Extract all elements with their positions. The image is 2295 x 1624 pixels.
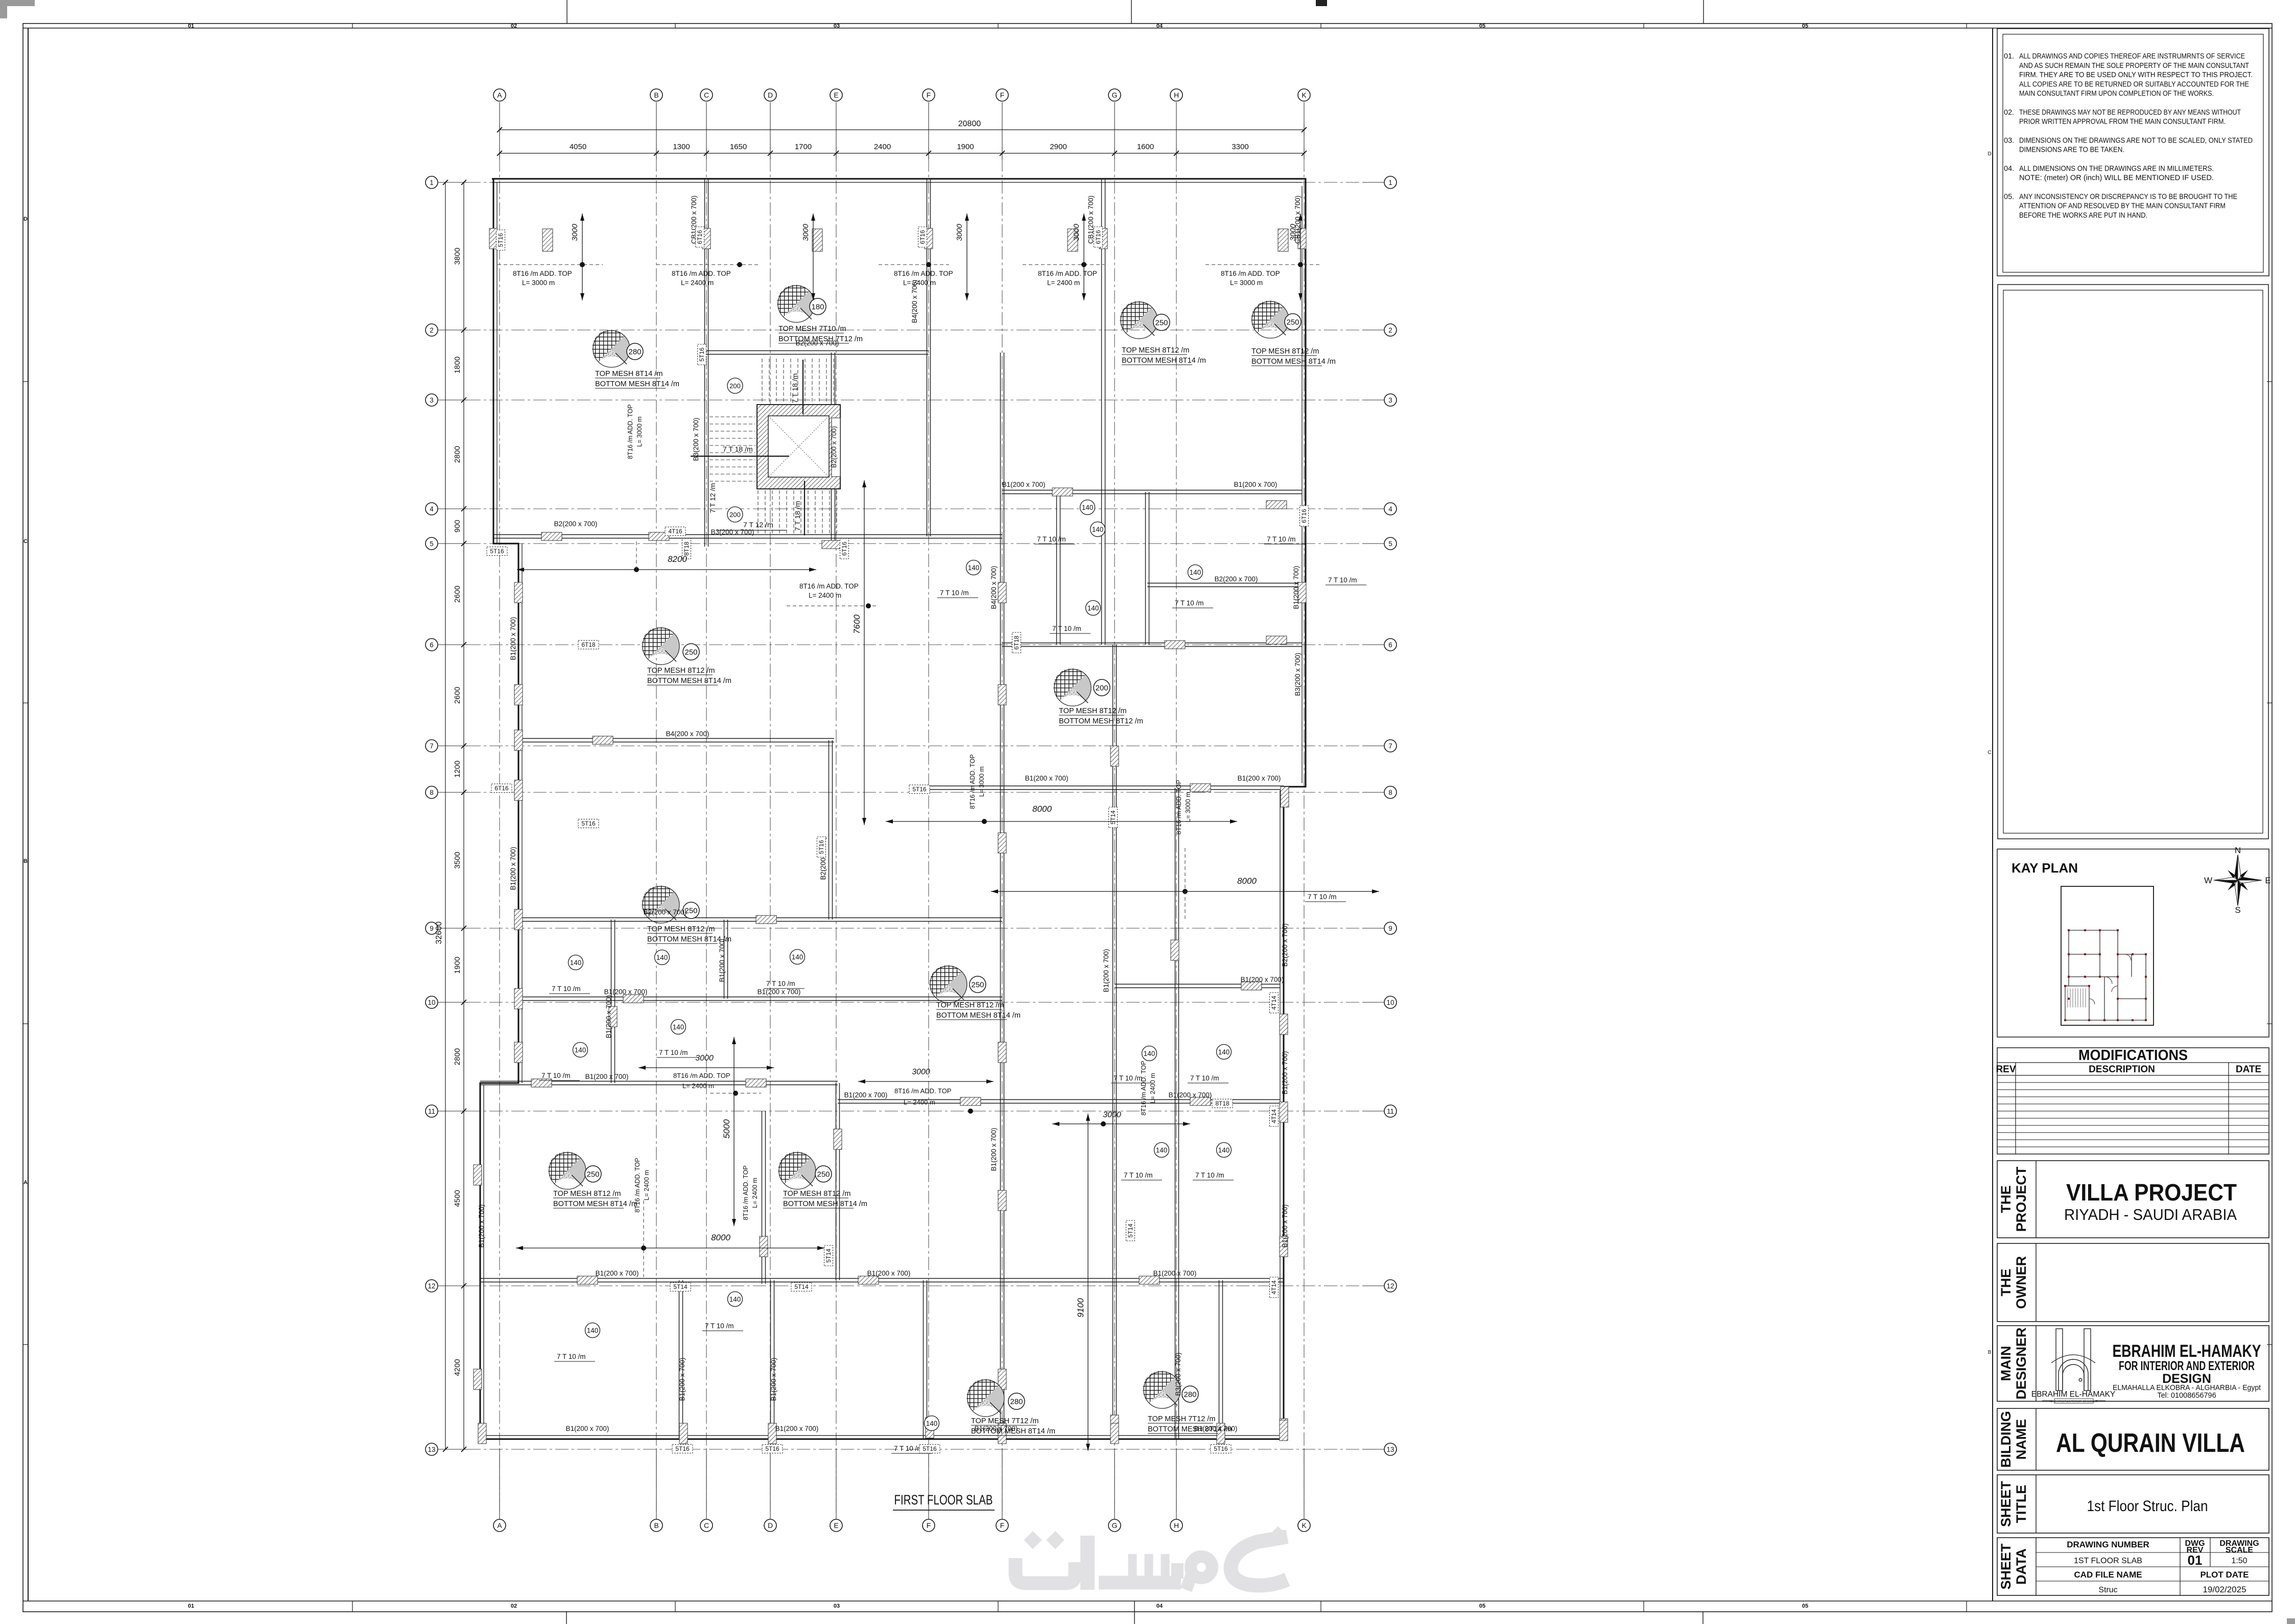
beam vertical x=1383	[704, 352, 705, 547]
mesh 280 at 2275,2721	[1143, 1371, 1180, 1408]
label box 6T16	[491, 784, 512, 793]
label box 6T18	[578, 641, 599, 649]
svg-text:L= 2400 m: L= 2400 m	[1047, 279, 1080, 287]
svg-text:3000: 3000	[801, 224, 810, 241]
column at 2350,1542	[1190, 784, 1211, 792]
label box 6T18	[1012, 632, 1021, 653]
svg-text:200: 200	[729, 382, 741, 390]
svg-text:3000: 3000	[1072, 224, 1081, 241]
grid bubble 3 left	[425, 394, 438, 406]
svg-text:6: 6	[430, 641, 434, 649]
svg-text:RIYADH - SAUDI ARABIA: RIYADH - SAUDI ARABIA	[2064, 1206, 2237, 1223]
svg-text:1st Floor Struc. Plan: 1st Floor Struc. Plan	[2087, 1498, 2208, 1515]
column at 1015,1160	[514, 582, 523, 603]
beam horizontal y=2506	[480, 1278, 1284, 1279]
svg-text:01.: 01.	[2004, 53, 2014, 61]
label box 5T16	[496, 230, 505, 250]
column at 2499,988	[1266, 501, 1287, 509]
svg-text:5T16: 5T16	[818, 840, 825, 854]
circle 140 at 2274,2251	[1154, 1143, 1169, 1158]
svg-text:E: E	[834, 1521, 838, 1529]
svg-text:7 T 10 /m: 7 T 10 /m	[541, 1072, 571, 1079]
svg-text:B1(200 x 700): B1(200 x 700)	[1169, 1091, 1212, 1099]
label box 5T14	[670, 1283, 691, 1291]
svg-text:MAIN CONSULTANT FIRM UPON COMP: MAIN CONSULTANT FIRM UPON COMPLETION OF …	[2019, 90, 2214, 98]
svg-text:B2(200 x 700): B2(200 x 700)	[554, 520, 598, 528]
grid bubble 12 left	[425, 1280, 438, 1292]
grid bubble B bottom	[650, 1519, 663, 1532]
svg-text:TOP MESH 8T12 /m: TOP MESH 8T12 /m	[936, 1001, 1004, 1009]
beam horizontal y=1930	[1115, 984, 1280, 985]
svg-text:8200: 8200	[668, 554, 687, 564]
label box 8T18	[1212, 1099, 1233, 1108]
svg-text:D: D	[1988, 151, 1991, 157]
svg-text:140: 140	[926, 1420, 938, 1427]
svg-text:DATA: DATA	[2014, 1548, 2029, 1585]
column at 2350,2156	[1190, 1097, 1211, 1105]
svg-text:BOTTOM MESH 8T14 /m: BOTTOM MESH 8T14 /m	[1122, 357, 1206, 365]
circle 140 at 1160,2604	[585, 1323, 600, 1338]
svg-text:B1(200 x 700): B1(200 x 700)	[478, 1205, 485, 1248]
svg-text:MAIN: MAIN	[1998, 1346, 2014, 1381]
stair 200 circles	[727, 378, 743, 393]
svg-text:02: 02	[511, 23, 517, 29]
bottom zone band line	[23, 1601, 2272, 1602]
span 9100	[1087, 1114, 1089, 1451]
svg-text:C: C	[1988, 750, 1991, 756]
svg-text:B2(200 x 700): B2(200 x 700)	[796, 339, 839, 347]
svg-text:ATTENTION OF AND RESOLVED BY T: ATTENTION OF AND RESOLVED BY THE MAIN CO…	[2019, 202, 2226, 210]
svg-text:PROJECT: PROJECT	[2014, 1166, 2029, 1232]
svg-text:8T16 /m ADD. TOP: 8T16 /m ADD. TOP	[1038, 270, 1097, 277]
svg-text:5T14: 5T14	[825, 1249, 832, 1263]
svg-text:B1(200 x 700): B1(200 x 700)	[1281, 1205, 1289, 1248]
svg-text:5: 5	[1388, 540, 1392, 548]
grid bubble 7 right	[1384, 740, 1397, 752]
column at 2450,1930	[1241, 982, 1262, 990]
span 8000 right	[991, 891, 1379, 892]
label box 6T16	[1094, 227, 1103, 247]
column at 1962,1160	[998, 582, 1006, 603]
svg-text:19/02/2025: 19/02/2025	[2203, 1585, 2246, 1594]
svg-text:280: 280	[1010, 1398, 1023, 1406]
column at 1962,1360	[998, 685, 1006, 705]
svg-text:B1(200 x 700): B1(200 x 700)	[1292, 566, 1300, 609]
svg-text:PLOT DATE: PLOT DATE	[2200, 1570, 2249, 1580]
beam horizontal y=1542	[929, 786, 1284, 787]
svg-text:7: 7	[1388, 742, 1392, 750]
beam vertical x=2182	[1113, 645, 1114, 1439]
column at 1900,2156	[960, 1097, 981, 1105]
svg-text:BOTTOM MESH 8T14 /m: BOTTOM MESH 8T14 /m	[1251, 358, 1336, 366]
circle 140 at 1561,1873	[790, 950, 805, 964]
grid bubble G top	[1108, 89, 1121, 101]
svg-text:04: 04	[1156, 1603, 1163, 1609]
column at 1512,2806	[768, 1423, 776, 1444]
svg-text:8T16 /m ADD. TOP: 8T16 /m ADD. TOP	[894, 1087, 952, 1095]
svg-text:4: 4	[430, 505, 434, 513]
svg-text:250: 250	[817, 1170, 830, 1179]
svg-text:2800: 2800	[453, 446, 462, 463]
svg-text:B: B	[23, 858, 28, 864]
svg-text:140: 140	[1082, 504, 1094, 511]
svg-text:AND AS SUCH REMAIN THE SOLE PR: AND AS SUCH REMAIN THE SOLE PROPERTY OF …	[2019, 62, 2249, 70]
svg-text:B1(200 x 700): B1(200 x 700)	[509, 847, 517, 890]
label box 5T16	[1211, 1445, 1231, 1453]
grid bubble C top	[700, 89, 713, 101]
mesh 180 at 1559,595	[777, 285, 815, 322]
mesh 250 at 1111,2292	[548, 1151, 586, 1189]
svg-text:2: 2	[430, 326, 434, 334]
svg-text:6T18: 6T18	[1013, 636, 1020, 650]
svg-text:8T16 /m ADD. TOP: 8T16 /m ADD. TOP	[799, 582, 859, 590]
svg-text:5T16: 5T16	[912, 786, 927, 793]
svg-text:1800: 1800	[453, 357, 462, 373]
svg-text:TOP MESH 8T12 /m: TOP MESH 8T12 /m	[1059, 707, 1126, 715]
svg-text:C: C	[23, 538, 28, 545]
svg-text:ANY INCONSISTENCY OR DISCREPAN: ANY INCONSISTENCY OR DISCREPANCY IS TO B…	[2019, 193, 2237, 201]
svg-text:8: 8	[430, 789, 434, 796]
svg-text:K: K	[1302, 91, 1307, 99]
svg-text:TOP MESH 8T12 /m: TOP MESH 8T12 /m	[647, 925, 715, 933]
label box 5T14	[1109, 807, 1118, 828]
svg-text:THE: THE	[1998, 1269, 2014, 1297]
svg-text:AL QURAIN VILLA: AL QURAIN VILLA	[2056, 1428, 2245, 1458]
svg-text:OWNER: OWNER	[2014, 1256, 2029, 1309]
grid bubble D top	[764, 89, 776, 101]
svg-text:180: 180	[811, 303, 824, 312]
svg-text:5: 5	[430, 540, 434, 548]
svg-text:280: 280	[1184, 1391, 1196, 1399]
svg-text:5T16: 5T16	[581, 820, 596, 827]
svg-text:B1(200 x 700): B1(200 x 700)	[585, 1073, 629, 1080]
svg-text:N: N	[2235, 845, 2241, 855]
grid bubble 6 left	[425, 639, 438, 651]
mesh 200 at 2100,1346	[1053, 668, 1091, 706]
svg-text:TOP MESH 7T12 /m: TOP MESH 7T12 /m	[971, 1417, 1038, 1425]
svg-text:C: C	[704, 1521, 709, 1529]
column at 1200,1990	[609, 1006, 617, 1027]
svg-text:6T16: 6T16	[1095, 230, 1102, 244]
label box 6T16	[840, 538, 849, 559]
svg-text:1900: 1900	[957, 143, 974, 151]
BILDING NAME block	[1997, 1408, 2269, 1470]
svg-text:W: W	[2204, 876, 2212, 885]
circle 140 at 1296,1874	[655, 950, 670, 965]
svg-text:4200: 4200	[453, 1359, 462, 1376]
beam horizontal y=1262	[1002, 643, 1302, 644]
column at 2513,2005	[1280, 1014, 1288, 1034]
svg-text:E: E	[2265, 876, 2270, 885]
svg-text:E: E	[834, 91, 838, 99]
svg-text:140: 140	[729, 1296, 741, 1303]
grid bubble H top	[1170, 89, 1182, 101]
svg-text:7 T 10 /m: 7 T 10 /m	[659, 1049, 688, 1056]
svg-text:B1(200 x 700): B1(200 x 700)	[604, 988, 648, 996]
column at 2390,2806	[1217, 1423, 1225, 1444]
svg-text:B: B	[654, 1521, 658, 1529]
svg-text:3000: 3000	[1289, 224, 1297, 241]
svg-text:8T18: 8T18	[683, 542, 690, 556]
svg-text:B2(200 x 700): B2(200 x 700)	[1281, 924, 1289, 967]
beam vertical x=2304	[1175, 788, 1176, 986]
svg-text:05.: 05.	[2004, 193, 2014, 201]
svg-text:8T16 /m ADD. TOP: 8T16 /m ADD. TOP	[1221, 270, 1280, 277]
svg-text:FIRST FLOOR SLAB: FIRST FLOOR SLAB	[894, 1492, 993, 1508]
svg-text:7 T 10 /m: 7 T 10 /m	[552, 985, 581, 993]
svg-text:140: 140	[656, 954, 668, 961]
label box 5T16	[817, 837, 826, 857]
svg-text:140: 140	[1190, 569, 1201, 576]
svg-text:L= 3000 m: L= 3000 m	[978, 766, 985, 796]
svg-text:B3(200 x 700): B3(200 x 700)	[711, 528, 754, 536]
svg-text:B1(200 x 700): B1(200 x 700)	[596, 1269, 639, 1277]
column at 1640,2230	[834, 1129, 842, 1149]
circle 140 at 1328,2010	[671, 1020, 686, 1034]
beam vertical x=2304	[1175, 986, 1176, 1439]
svg-text:B2(200 x 700): B2(200 x 700)	[1215, 575, 1258, 583]
grid bubble E bottom	[830, 1519, 842, 1532]
kay plan mini map	[2061, 886, 2154, 1025]
grid bubble 11 left	[425, 1105, 438, 1117]
svg-text:7 T 10 /m: 7 T 10 /m	[766, 980, 795, 987]
column at 2182,2806	[1110, 1423, 1119, 1444]
svg-text:5T14: 5T14	[673, 1283, 688, 1290]
svg-text:140: 140	[1092, 526, 1104, 533]
column at 2549,467	[1298, 228, 1306, 249]
svg-text:B1(200 x 700): B1(200 x 700)	[770, 1358, 777, 1401]
span 8200	[517, 569, 816, 570]
beam vertical x=1811	[923, 1280, 924, 1439]
grid dashed lines horizontal	[467, 182, 1379, 183]
svg-text:12: 12	[1386, 1282, 1394, 1290]
beam horizontal y=963	[1002, 490, 1302, 491]
svg-text:4050: 4050	[570, 143, 586, 151]
svg-text:FOR INTERIOR AND EXTERIOR: FOR INTERIOR AND EXTERIOR	[2119, 1359, 2255, 1373]
svg-text:L= 2400 m: L= 2400 m	[904, 1098, 935, 1106]
column at 1383,467	[702, 228, 711, 249]
beam vertical x=1640	[836, 1083, 837, 1280]
svg-text:SHEET: SHEET	[1998, 1480, 2014, 1527]
svg-text:4T14: 4T14	[1270, 1109, 1277, 1123]
svg-text:L= 3000 m: L= 3000 m	[636, 416, 643, 446]
column at 1818,467	[925, 228, 933, 249]
circle 140 at 2396,2059	[1217, 1045, 1232, 1060]
grid bubble 6 right	[1384, 639, 1397, 651]
column at 1629,1066	[822, 540, 842, 549]
svg-text:04.: 04.	[2004, 164, 2014, 173]
grid bubble 8 right	[1384, 786, 1397, 798]
svg-text:5T16: 5T16	[490, 548, 504, 555]
svg-text:5T16: 5T16	[922, 1445, 937, 1452]
shear wall marks	[542, 229, 553, 251]
beam vertical x=1512	[770, 1280, 771, 1439]
kay plan red column dots	[2064, 929, 2147, 1021]
svg-text:280: 280	[628, 348, 641, 357]
label box 5T14	[824, 1245, 833, 1266]
svg-text:140: 140	[587, 1327, 599, 1334]
svg-text:7 T 10 /m: 7 T 10 /m	[1308, 893, 1337, 901]
grid bubble H bottom	[1170, 1519, 1182, 1532]
grid bubble G bottom	[1108, 1519, 1121, 1532]
svg-text:6T16: 6T16	[1300, 509, 1308, 523]
svg-text:D: D	[768, 1521, 773, 1529]
svg-text:BEFORE THE WORKS ARE PUT IN HA: BEFORE THE WORKS ARE PUT IN HAND.	[2019, 211, 2147, 220]
column at 2160,467	[1099, 228, 1107, 249]
svg-text:TOP MESH 8T12 /m: TOP MESH 8T12 /m	[647, 667, 715, 675]
svg-text:1300: 1300	[673, 143, 690, 151]
svg-text:8T16 /m ADD. TOP: 8T16 /m ADD. TOP	[1140, 1061, 1147, 1115]
svg-text:9: 9	[1388, 925, 1392, 932]
grid bubble 3 right	[1384, 394, 1397, 406]
svg-text:NOTE: (meter) OR (inch) WILL B: NOTE: (meter) OR (inch) WILL BE MENTIONE…	[2019, 174, 2214, 182]
svg-text:VILLA PROJECT: VILLA PROJECT	[2066, 1179, 2237, 1206]
svg-text:8T16 /m ADD. TOP: 8T16 /m ADD. TOP	[1175, 780, 1182, 834]
svg-text:8000: 8000	[711, 1233, 730, 1242]
svg-text:05: 05	[1802, 23, 1808, 29]
svg-text:TITLE: TITLE	[2014, 1485, 2029, 1523]
svg-text:4T16: 4T16	[668, 528, 682, 535]
grid bubble 2 right	[1384, 324, 1397, 336]
SHEET TITLE block	[1997, 1475, 2269, 1533]
svg-text:13: 13	[1386, 1446, 1394, 1453]
beam horizontal y=2120	[480, 1081, 838, 1082]
svg-text:250: 250	[586, 1170, 599, 1179]
svg-text:DIMENSIONS ON THE DRAWINGS ARE: DIMENSIONS ON THE DRAWINGS ARE NOT TO BE…	[2019, 136, 2253, 145]
stair side flight	[709, 417, 755, 481]
svg-text:D: D	[768, 91, 773, 99]
svg-text:B1(200 x 700): B1(200 x 700)	[1025, 774, 1069, 782]
svg-text:5T14: 5T14	[1127, 1223, 1134, 1238]
grid bubble 4 left	[425, 503, 438, 515]
svg-text:4T14: 4T14	[1270, 1280, 1277, 1295]
mesh 250 at 1294,1771	[642, 885, 679, 923]
column at 935,2700	[474, 1369, 482, 1390]
svg-text:2600: 2600	[453, 687, 462, 703]
beam horizontal y=690	[706, 350, 929, 351]
mesh 250 at 1857,1927	[929, 965, 967, 1003]
svg-text:7 T 10 /m: 7 T 10 /m	[940, 589, 969, 597]
svg-text:20800: 20800	[958, 120, 981, 128]
column at 2513,2800	[1280, 1420, 1288, 1441]
svg-text:8: 8	[1388, 789, 1392, 796]
svg-text:900: 900	[453, 520, 462, 532]
grid bubble F bottom	[922, 1519, 935, 1532]
label box 4T14	[1270, 993, 1279, 1013]
svg-text:L= 2400 m: L= 2400 m	[1149, 1073, 1156, 1103]
label box 5T16	[919, 1445, 940, 1453]
svg-text:DATE: DATE	[2236, 1064, 2261, 1075]
beam vertical x=1495	[762, 1111, 763, 1284]
left segment dimensions	[463, 182, 464, 1449]
svg-text:250: 250	[1286, 318, 1299, 327]
grid bubble 7 left	[425, 740, 438, 752]
svg-text:8T16 /m ADD. TOP: 8T16 /m ADD. TOP	[672, 270, 731, 277]
circle 140 at 1824,2786	[925, 1416, 939, 1431]
svg-text:7 T 18 /m: 7 T 18 /m	[793, 501, 801, 531]
svg-text:8T16 /m ADD. TOP: 8T16 /m ADD. TOP	[673, 1072, 730, 1079]
grid bubble C bottom	[700, 1519, 713, 1532]
label box 4T14	[1270, 1106, 1279, 1126]
beam horizontal y=1800	[516, 917, 1002, 919]
elevator shaft	[757, 405, 840, 489]
THE OWNER block	[1997, 1243, 2269, 1322]
column at 1240,1955	[623, 995, 644, 1003]
svg-text:NAME: NAME	[2014, 1419, 2029, 1460]
svg-text:A: A	[497, 91, 502, 99]
svg-text:1900: 1900	[453, 957, 462, 974]
svg-text:250: 250	[684, 648, 697, 657]
grid bubble B top	[650, 89, 663, 101]
svg-text:BOTTOM MESH 8T14 /m: BOTTOM MESH 8T14 /m	[595, 380, 679, 388]
svg-text:A: A	[497, 1521, 502, 1529]
span 8000 lower left	[516, 1248, 824, 1249]
circle 140 at 1136,2055	[573, 1043, 588, 1057]
svg-text:7 T 12 /m: 7 T 12 /m	[743, 521, 773, 529]
svg-text:F: F	[1000, 91, 1005, 99]
svg-text:6T16: 6T16	[841, 542, 848, 556]
svg-text:140: 140	[792, 953, 803, 961]
beam vertical x=1200	[611, 920, 612, 1083]
grid bubble 9 left	[425, 922, 438, 934]
svg-text:B1(200 x 700): B1(200 x 700)	[758, 988, 801, 996]
svg-text:200: 200	[729, 511, 741, 519]
svg-text:7 T 10 /m: 7 T 10 /m	[1175, 599, 1204, 607]
svg-text:05: 05	[1802, 1603, 1808, 1609]
column at 966,467	[489, 228, 498, 249]
circle 140 at 2340,1120	[1188, 565, 1203, 580]
svg-text:7 T 10 /m: 7 T 10 /m	[1052, 625, 1081, 632]
svg-text:L= 2400 m: L= 2400 m	[681, 279, 714, 287]
svg-text:01: 01	[2188, 1552, 2203, 1568]
beam horizontal y=1145	[1147, 583, 1302, 584]
svg-text:140: 140	[575, 1046, 586, 1054]
svg-text:3000: 3000	[955, 224, 964, 241]
grid bubble F top	[922, 89, 935, 101]
svg-text:ALL DRAWINGS AND COPIES THEREO: ALL DRAWINGS AND COPIES THEREOF ARE INST…	[2019, 53, 2245, 61]
svg-text:8T16 /m ADD. TOP: 8T16 /m ADD. TOP	[742, 1165, 749, 1220]
svg-text:05: 05	[1479, 1603, 1485, 1609]
svg-text:3500: 3500	[453, 852, 462, 868]
svg-text:10: 10	[428, 999, 435, 1006]
svg-text:2: 2	[1388, 326, 1392, 334]
svg-text:1ST FLOOR SLAB: 1ST FLOOR SLAB	[2074, 1557, 2142, 1565]
svg-text:200: 200	[1095, 684, 1108, 693]
svg-text:3000: 3000	[695, 1054, 714, 1063]
svg-text:11: 11	[1387, 1108, 1394, 1115]
svg-text:H: H	[1174, 91, 1179, 99]
svg-text:7 T 10 /m: 7 T 10 /m	[1124, 1171, 1153, 1179]
label box 5T16	[762, 1445, 783, 1453]
svg-text:L= 2400 m: L= 2400 m	[751, 1178, 759, 1208]
svg-text:4T14: 4T14	[1270, 996, 1277, 1010]
svg-text:B1(200 x 700): B1(200 x 700)	[775, 1425, 819, 1432]
svg-text:L= 3000 m: L= 3000 m	[1230, 279, 1263, 287]
svg-text:ALL DIMENSIONS ON THE DRAWINGS: ALL DIMENSIONS ON THE DRAWINGS ARE IN MI…	[2019, 164, 2214, 173]
svg-text:5T14: 5T14	[794, 1283, 809, 1290]
svg-text:5T16: 5T16	[765, 1445, 779, 1452]
beam horizontal y=1449	[514, 738, 834, 739]
beam vertical x=1631	[831, 352, 832, 547]
label box 6T16	[918, 227, 927, 247]
svg-text:3300: 3300	[1232, 143, 1248, 151]
svg-text:3000: 3000	[912, 1068, 930, 1076]
column at 2513,2797	[1280, 1419, 1288, 1439]
column at 1820,2795	[926, 1418, 934, 1438]
column at 1962,2350	[998, 1190, 1006, 1211]
svg-text:L= 3000 m: L= 3000 m	[1185, 792, 1192, 822]
column at 1150,2506	[577, 1276, 598, 1284]
